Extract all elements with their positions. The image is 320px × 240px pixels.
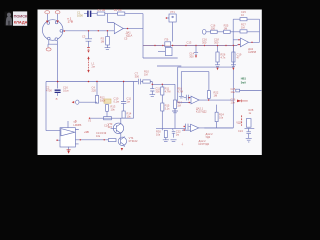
svg-text:300: 300 — [214, 40, 219, 44]
svg-text:220: 220 — [92, 88, 97, 92]
svg-text:ПЭ: ПЭ — [165, 38, 169, 42]
svg-text:300: 300 — [202, 40, 207, 44]
svg-text:1м: 1м — [176, 133, 179, 137]
svg-text:1М: 1М — [177, 104, 181, 108]
svg-text:R1 1М: R1 1М — [98, 8, 106, 12]
svg-text:315: 315 — [108, 125, 113, 129]
svg-text:0,1м: 0,1м — [63, 89, 69, 93]
svg-text:С24: С24 — [238, 129, 243, 133]
svg-text:1М: 1М — [144, 72, 148, 76]
svg-text:С3: С3 — [82, 34, 86, 38]
svg-text:УД2: УД2 — [206, 135, 211, 139]
svg-text:300: 300 — [189, 54, 194, 58]
svg-text:VT1: VT1 — [170, 10, 175, 14]
svg-text:LМ358: LМ358 — [248, 50, 256, 54]
svg-text:LМ386: LМ386 — [73, 123, 81, 127]
svg-text:VД2: VД2 — [236, 120, 241, 124]
svg-text:10н: 10н — [231, 100, 236, 104]
svg-text:1М: 1М — [214, 93, 218, 97]
svg-text:С5: С5 — [124, 36, 128, 40]
svg-text:4700: 4700 — [46, 89, 52, 93]
svg-text:⏚: ⏚ — [181, 142, 184, 146]
svg-text:100: 100 — [211, 26, 216, 30]
svg-text:10н: 10н — [231, 90, 236, 94]
svg-text:КЛАДА: КЛАДА — [14, 20, 28, 25]
svg-text:К157УД2: К157УД2 — [196, 109, 207, 113]
svg-text:+9В: +9В — [84, 130, 89, 134]
svg-text:2м: 2м — [92, 65, 95, 69]
svg-text:1М: 1М — [241, 26, 245, 30]
svg-text:4,7М: 4,7М — [165, 90, 171, 94]
svg-text:ПОИСК: ПОИСК — [14, 13, 28, 18]
svg-text:4,7М: 4,7М — [177, 90, 183, 94]
svg-text:300к: 300к — [100, 99, 106, 103]
svg-text:300: 300 — [135, 74, 140, 78]
svg-text:К157УД2: К157УД2 — [199, 142, 210, 146]
svg-text:КТ3102: КТ3102 — [129, 139, 138, 143]
svg-text:0,1м: 0,1м — [114, 100, 120, 104]
svg-text:1М: 1М — [101, 40, 105, 44]
svg-text:300: 300 — [155, 90, 160, 94]
svg-text:R2 1М: R2 1М — [114, 8, 122, 12]
svg-text:1м: 1м — [127, 100, 130, 104]
svg-text:17В: 17В — [68, 20, 73, 24]
svg-text:С13: С13 — [187, 40, 192, 44]
svg-text:3мА: 3мА — [241, 80, 246, 84]
svg-text:1М: 1М — [224, 26, 228, 30]
svg-text:1000: 1000 — [77, 13, 83, 17]
svg-text:НВ1: НВ1 — [241, 77, 247, 81]
